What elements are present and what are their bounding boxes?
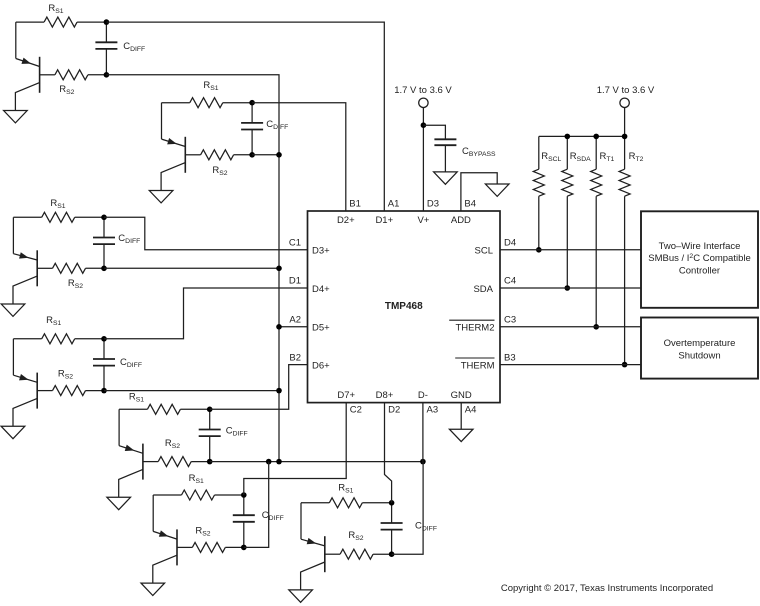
svg-text:THERM: THERM	[461, 360, 495, 371]
svg-text:RT2: RT2	[629, 151, 644, 163]
svg-text:RS2: RS2	[165, 438, 180, 450]
svg-text:A3: A3	[427, 404, 439, 415]
svg-text:B4: B4	[464, 199, 476, 210]
svg-text:RS1: RS1	[46, 315, 61, 327]
svg-text:C3: C3	[504, 315, 516, 326]
svg-text:C1: C1	[289, 238, 301, 249]
svg-text:CDIFF: CDIFF	[266, 119, 288, 131]
svg-text:B2: B2	[289, 352, 301, 363]
svg-text:RSCL: RSCL	[541, 151, 561, 163]
svg-text:D4: D4	[504, 238, 516, 249]
svg-text:RS1: RS1	[50, 198, 65, 210]
svg-text:C2: C2	[350, 404, 362, 415]
svg-text:D1: D1	[289, 276, 301, 287]
svg-text:D4+: D4+	[312, 284, 330, 295]
svg-text:D2: D2	[388, 404, 400, 415]
svg-text:RS2: RS2	[212, 165, 227, 177]
svg-text:D5+: D5+	[312, 323, 330, 334]
svg-text:D7+: D7+	[337, 390, 355, 401]
svg-text:RS1: RS1	[129, 392, 144, 404]
svg-text:Shutdown: Shutdown	[678, 350, 720, 361]
svg-text:RS2: RS2	[348, 530, 363, 542]
svg-text:CDIFF: CDIFF	[120, 357, 142, 369]
svg-text:CDIFF: CDIFF	[415, 521, 437, 533]
svg-text:CDIFF: CDIFF	[118, 233, 140, 245]
svg-text:A2: A2	[289, 315, 301, 326]
svg-text:1.7 V to 3.6 V: 1.7 V to 3.6 V	[597, 85, 655, 96]
svg-text:RS1: RS1	[203, 80, 218, 92]
svg-text:D6+: D6+	[312, 360, 330, 371]
svg-text:A1: A1	[388, 199, 400, 210]
svg-text:CBYPASS: CBYPASS	[462, 146, 496, 158]
svg-text:D8+: D8+	[376, 390, 394, 401]
svg-text:RS2: RS2	[59, 84, 74, 96]
svg-text:RS1: RS1	[189, 473, 204, 485]
svg-text:CDIFF: CDIFF	[226, 426, 248, 438]
svg-text:RS2: RS2	[58, 369, 73, 381]
svg-text:RSDA: RSDA	[570, 151, 591, 163]
svg-text:B3: B3	[504, 352, 516, 363]
svg-text:D-: D-	[418, 390, 428, 401]
svg-text:Two–Wire Interface: Two–Wire Interface	[659, 241, 741, 252]
svg-text:CDIFF: CDIFF	[123, 41, 145, 53]
svg-text:TMP468: TMP468	[385, 301, 423, 312]
svg-text:SMBus / I2C Compatible: SMBus / I2C Compatible	[648, 253, 751, 264]
svg-text:1.7 V to 3.6 V: 1.7 V to 3.6 V	[394, 85, 452, 96]
svg-text:A4: A4	[465, 404, 477, 415]
svg-text:SCL: SCL	[475, 246, 493, 257]
svg-text:B1: B1	[349, 199, 361, 210]
svg-text:RS2: RS2	[195, 526, 210, 538]
svg-text:RS1: RS1	[48, 3, 63, 15]
svg-text:Overtemperature: Overtemperature	[664, 338, 736, 349]
svg-text:CDIFF: CDIFF	[262, 510, 284, 522]
svg-text:Copyright © 2017, Texas Instru: Copyright © 2017, Texas Instruments Inco…	[501, 583, 713, 594]
svg-text:THERM2: THERM2	[455, 323, 494, 334]
svg-text:ADD: ADD	[451, 215, 471, 226]
svg-text:D3: D3	[427, 199, 439, 210]
svg-text:RS2: RS2	[68, 278, 83, 290]
svg-text:Controller: Controller	[679, 266, 720, 277]
svg-text:D2+: D2+	[337, 215, 355, 226]
svg-text:C4: C4	[504, 276, 516, 287]
svg-text:GND: GND	[451, 390, 472, 401]
svg-text:RT1: RT1	[600, 151, 615, 163]
svg-text:D3+: D3+	[312, 246, 330, 257]
svg-text:D1+: D1+	[375, 215, 393, 226]
svg-text:V+: V+	[417, 215, 429, 226]
svg-text:SDA: SDA	[473, 284, 493, 295]
svg-text:RS1: RS1	[338, 483, 353, 495]
